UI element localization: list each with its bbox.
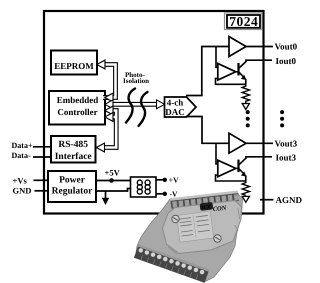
wire -V output	[156, 193, 164, 195]
wire Data-	[33, 156, 51, 158]
wire +Vs	[34, 179, 49, 181]
wire bus to buffer A2 input	[216, 47, 219, 68]
outer enclosure box	[44, 11, 264, 214]
svg-text:Data+: Data+	[12, 141, 33, 150]
hollow bus controller to RS-485	[96, 106, 117, 152]
DAC U3 4-ch	[165, 97, 197, 117]
channel 0	[216, 37, 274, 110]
op-amp A3 voltage buffer	[229, 133, 246, 153]
transistor Q2	[236, 157, 273, 181]
svg-text:GND: GND	[13, 186, 32, 196]
resistor R2	[242, 181, 249, 195]
module side ridges	[168, 208, 240, 254]
svg-text:Data-: Data-	[12, 151, 31, 160]
ellipsis dots outer	[280, 110, 284, 127]
svg-text:+V: +V	[169, 176, 179, 185]
hollow bus controller to DAC	[105, 100, 165, 109]
wire DAC to channel 0	[186, 47, 229, 96]
svg-text:7024: 7024	[229, 14, 258, 29]
node -V	[163, 192, 167, 196]
svg-text:ICP: ICP	[201, 204, 212, 211]
svg-text:+Vs: +Vs	[13, 176, 28, 186]
wire power return	[96, 189, 131, 192]
svg-text:Regulator: Regulator	[52, 186, 93, 196]
svg-text:Vout3: Vout3	[275, 138, 298, 148]
module spec label	[177, 211, 214, 242]
wire +5V rail	[96, 180, 131, 182]
node +V	[163, 178, 167, 182]
svg-text:DAC: DAC	[165, 107, 185, 117]
svg-text:+5V: +5V	[105, 168, 121, 178]
op-amp A4 current driver	[218, 160, 236, 177]
svg-text:Vout0: Vout0	[275, 42, 298, 52]
ICP CON I-7000 module illustration	[134, 191, 243, 283]
svg-text:AGND: AGND	[276, 195, 303, 205]
svg-text:Embedded: Embedded	[57, 95, 99, 105]
wire GND	[35, 190, 49, 192]
RS-485 interface U4	[51, 136, 96, 163]
module face panel	[163, 201, 242, 254]
hollow bus EEPROM to controller	[97, 60, 116, 102]
wire DAC to channel 3	[186, 117, 229, 144]
EEPROM U2	[51, 51, 97, 75]
wire feedback loop A2	[216, 78, 247, 84]
open arrow to AGND channel 3	[242, 196, 249, 202]
wire Vout3	[246, 142, 273, 144]
channel 3	[216, 133, 274, 202]
svg-text:RS-485: RS-485	[58, 140, 88, 150]
module screws	[172, 215, 179, 222]
svg-text:-V: -V	[170, 190, 178, 199]
resistor R1	[242, 84, 249, 103]
wire Vout0	[246, 46, 273, 48]
wire Data+	[33, 146, 51, 148]
node +5V junction	[109, 178, 114, 183]
svg-text:Controller: Controller	[57, 107, 97, 117]
ground symbol	[102, 191, 109, 205]
wire bus to buffer A4 input	[216, 143, 219, 164]
ellipsis dots inner	[246, 110, 250, 127]
photo-isolation barrier squiggles	[123, 71, 149, 126]
svg-text:Interface: Interface	[55, 152, 92, 162]
embedded controller U1	[49, 91, 105, 125]
module nameplate 7024	[225, 13, 263, 30]
svg-text:Iout3: Iout3	[276, 153, 297, 163]
DC-DC converter T1	[131, 177, 157, 197]
wire AGND	[260, 199, 274, 201]
svg-text:Isolation: Isolation	[123, 77, 149, 85]
op-amp A1 voltage buffer	[229, 37, 246, 57]
open arrow to AGND channel 0	[242, 104, 249, 110]
module bottom terminal block	[134, 244, 209, 282]
module logo ICP CON	[200, 200, 228, 215]
transistor Q1	[236, 60, 273, 84]
op-amp A2 current driver	[218, 64, 236, 81]
wire +V output	[156, 179, 164, 181]
svg-text:Power: Power	[59, 176, 86, 186]
power regulator U5	[48, 171, 96, 202]
wire feedback loop A4	[216, 175, 247, 181]
svg-text:Iout0: Iout0	[276, 56, 297, 66]
svg-text:EEPROM: EEPROM	[54, 61, 94, 71]
